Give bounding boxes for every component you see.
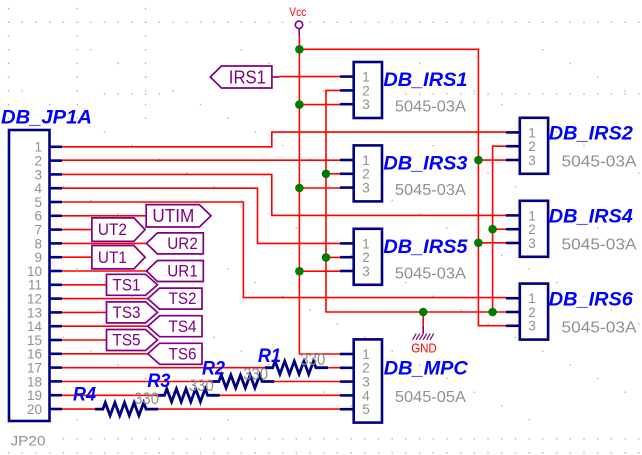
svg-text:330: 330 <box>134 389 159 408</box>
svg-text:TS2: TS2 <box>169 290 197 308</box>
net label UR1 <box>147 261 204 282</box>
junction Vcc bus / DB_IRS3 pin3 <box>295 184 304 193</box>
connector DB_IRS6 (5045-03A) body <box>506 284 548 340</box>
svg-text:8: 8 <box>34 236 42 251</box>
wire JP1A pin18 to R2 <box>62 381 211 383</box>
svg-text:2: 2 <box>528 305 536 320</box>
svg-text:20: 20 <box>27 402 42 417</box>
junction right bus / DB_IRS2 pin3 <box>474 156 483 165</box>
resistor R3 330 <box>156 389 219 402</box>
svg-text:3: 3 <box>34 167 42 182</box>
svg-text:16: 16 <box>27 347 42 362</box>
svg-text:DB_JP1A: DB_JP1A <box>1 107 92 128</box>
wire JP1A pin4 to DB_IRS5 pin1 <box>62 188 341 243</box>
wire JP1A pin11 to TS1 port <box>62 284 107 286</box>
svg-text:DB_IRS6: DB_IRS6 <box>549 289 633 310</box>
svg-text:1: 1 <box>362 153 370 168</box>
wire Vcc bus to DB_IRS5 pin3 <box>299 270 340 272</box>
svg-text:11: 11 <box>28 278 42 293</box>
DB_IRS5 pin numbers <box>362 236 370 279</box>
svg-text:2: 2 <box>34 154 42 169</box>
svg-text:14: 14 <box>27 319 43 334</box>
wire GND bus to DB_IRS3 pin2 <box>326 173 341 175</box>
DB_MPC pin numbers <box>362 347 370 417</box>
svg-text:2: 2 <box>528 139 536 154</box>
svg-text:6: 6 <box>34 209 42 224</box>
wire JP1A pin7 to UT2 port <box>62 229 92 231</box>
junction GND column / DB_IRS4 pin2 <box>488 225 497 234</box>
wire JP1A pin12 to TS2 port <box>62 298 148 300</box>
wire JP1A pin2 to DB_IRS3 pin1 <box>62 159 341 161</box>
svg-text:DB_IRS5: DB_IRS5 <box>383 237 467 258</box>
resistor R1 330 <box>265 361 328 374</box>
svg-text:12: 12 <box>27 292 42 307</box>
svg-text:5: 5 <box>34 195 42 210</box>
wire GND bus: DB_IRS1 pin2 down and across to DB_IRS6 pin2 <box>326 90 507 312</box>
net label TS2 <box>148 288 202 309</box>
wire right bus to DB_IRS4 pin3 <box>478 242 506 244</box>
wire JP1A pin19 to R3 <box>62 394 156 396</box>
svg-text:2: 2 <box>528 222 536 237</box>
wire R2 to DB_MPC pin3 <box>274 381 340 383</box>
wire JP1A pin8 to UR2 port <box>62 242 147 244</box>
svg-text:3: 3 <box>362 264 370 279</box>
svg-text:18: 18 <box>27 374 42 389</box>
svg-text:UTIM: UTIM <box>152 206 194 226</box>
resistor R2 330 <box>211 375 274 388</box>
wire GND bus to DB_IRS5 pin2 <box>326 256 341 258</box>
net label TS6 <box>148 343 202 364</box>
DB_IRS6 pin numbers <box>528 291 536 334</box>
wire IRS1 port to DB_IRS1 pin1 <box>279 76 341 78</box>
net label TS5 <box>107 330 158 351</box>
connector DB_MPC (5045-05A) body <box>340 339 382 422</box>
svg-text:DB_IRS2: DB_IRS2 <box>549 124 633 145</box>
svg-text:3: 3 <box>362 375 370 390</box>
wire Vcc branch to right bus feeding DB_IRS2/4/6 pin3 <box>299 49 506 325</box>
svg-text:2: 2 <box>362 167 370 182</box>
DB_IRS3 pin numbers <box>362 153 370 196</box>
svg-text:R4: R4 <box>73 385 96 406</box>
net label UR2 <box>147 233 204 254</box>
net label TS1 <box>107 274 158 295</box>
connector DB_IRS2 (5045-03A) body <box>506 118 548 174</box>
wire R4 to DB_MPC pin5 <box>158 408 340 410</box>
DB_IRS2 pin numbers <box>528 125 536 168</box>
svg-text:1: 1 <box>34 140 42 155</box>
svg-text:15: 15 <box>27 333 42 348</box>
junction GND bus / ground symbol <box>419 308 428 317</box>
svg-text:UT1: UT1 <box>98 249 127 267</box>
svg-text:GND: GND <box>411 341 437 355</box>
JP1A pin numbers 1-20 <box>27 140 43 417</box>
svg-text:330: 330 <box>189 376 214 395</box>
svg-text:4: 4 <box>362 388 370 403</box>
connector DB_IRS3 (5045-03A) body <box>340 145 382 201</box>
svg-text:TS3: TS3 <box>113 304 141 322</box>
DB_IRS1 pin numbers <box>362 70 370 113</box>
svg-text:10: 10 <box>27 264 42 279</box>
ground symbol <box>413 326 434 340</box>
svg-text:2: 2 <box>362 361 370 376</box>
wire JP1A pin13 to TS3 port <box>62 311 107 313</box>
connector DB_IRS1 (5045-03A) body <box>340 62 382 118</box>
svg-text:IRS1: IRS1 <box>229 67 266 88</box>
svg-text:4: 4 <box>34 181 42 196</box>
junction Vcc bus / right-bus branch <box>295 45 304 54</box>
svg-text:3: 3 <box>528 236 536 251</box>
junction GND column / GND bus <box>488 308 497 317</box>
svg-text:3: 3 <box>362 97 370 112</box>
svg-text:13: 13 <box>27 305 42 320</box>
wire JP1A pin15 to TS5 port <box>62 339 107 341</box>
svg-text:TS6: TS6 <box>169 345 197 363</box>
wire JP1A pin20 to R4 <box>62 408 95 410</box>
svg-text:5: 5 <box>362 402 370 417</box>
junction Vcc bus / DB_IRS5 pin3 <box>295 267 304 276</box>
junction right bus / DB_IRS4 pin3 <box>474 239 483 248</box>
svg-text:3: 3 <box>528 153 536 168</box>
net label UTIM <box>146 205 211 227</box>
wire GND column to DB_IRS4 pin2 <box>493 228 507 230</box>
wire JP1A pin3 to DB_IRS4 pin1 <box>62 174 507 215</box>
svg-text:5045-03A: 5045-03A <box>395 99 467 116</box>
svg-text:DB_MPC: DB_MPC <box>384 359 468 380</box>
svg-text:5045-03A: 5045-03A <box>562 319 638 336</box>
svg-text:UR2: UR2 <box>167 235 198 253</box>
svg-text:UR1: UR1 <box>167 263 198 281</box>
wire right bus to DB_IRS2 pin3 <box>478 159 506 161</box>
svg-text:5045-03A: 5045-03A <box>562 237 638 254</box>
wire Vcc bus to DB_IRS3 pin3 <box>299 187 340 189</box>
svg-text:DB_IRS1: DB_IRS1 <box>383 70 467 91</box>
connector DB_IRS5 (5045-03A) body <box>340 229 382 285</box>
svg-text:5045-05A: 5045-05A <box>395 389 467 406</box>
net label UT2 <box>92 218 145 241</box>
junction GND bus / DB_IRS3 pin2 <box>322 170 331 179</box>
wire JP1A pin14 to TS4 port <box>62 325 148 327</box>
wire R1 to DB_MPC pin2 <box>328 367 340 369</box>
svg-text:1: 1 <box>362 236 370 251</box>
svg-text:7: 7 <box>34 223 42 238</box>
svg-text:2: 2 <box>362 83 370 98</box>
svg-text:1: 1 <box>362 347 370 362</box>
svg-text:TS4: TS4 <box>169 318 197 336</box>
net label IRS1 <box>210 66 279 88</box>
junction Vcc bus / DB_IRS1 pin3 <box>295 100 304 109</box>
junction GND bus / DB_IRS5 pin2 <box>322 253 331 262</box>
svg-text:UT2: UT2 <box>98 221 127 239</box>
connector DB_IRS4 (5045-03A) body <box>506 201 548 257</box>
svg-text:TS5: TS5 <box>113 332 141 350</box>
wire Vcc bus to DB_IRS1 pin3 <box>299 104 340 106</box>
wire JP1A pin5 to DB_IRS6 pin1 <box>62 202 507 298</box>
wire Vcc bus down to DB_MPC pin1 <box>299 36 340 354</box>
svg-text:DB_IRS4: DB_IRS4 <box>549 207 633 228</box>
wire JP1A pin9 to UT1 port <box>62 256 92 258</box>
net label UT1 <box>92 246 145 269</box>
net label TS3 <box>107 302 158 323</box>
svg-text:1: 1 <box>528 291 536 306</box>
svg-text:17: 17 <box>27 361 42 376</box>
DB_IRS4 pin numbers <box>528 208 536 251</box>
svg-text:1: 1 <box>528 125 536 140</box>
svg-text:330: 330 <box>243 365 268 384</box>
wire JP1A pin6 to UTIM port <box>62 215 146 217</box>
wire JP1A pin17 to R1 <box>62 367 265 369</box>
svg-text:330: 330 <box>300 350 325 369</box>
wire R3 to DB_MPC pin4 <box>220 394 341 396</box>
svg-text:DB_IRS3: DB_IRS3 <box>383 153 467 174</box>
svg-text:5045-03A: 5045-03A <box>395 182 467 199</box>
connector JP1A 20-pin body <box>9 130 62 421</box>
svg-text:3: 3 <box>362 181 370 196</box>
wire JP1A pin16 to TS6 port <box>62 353 148 355</box>
power symbol Vcc <box>295 21 302 36</box>
net label TS4 <box>148 316 202 337</box>
wire JP1A pin1 to DB_IRS2 pin1 <box>62 132 507 147</box>
svg-text:JP20: JP20 <box>11 434 46 449</box>
svg-text:9: 9 <box>34 250 42 265</box>
svg-text:1: 1 <box>528 208 536 223</box>
wire DB_IRS2 pin2 down GND column to DB_IRS6 pin2 row <box>493 146 507 312</box>
svg-text:19: 19 <box>27 388 42 403</box>
wire JP1A pin10 to UR1 port <box>62 270 147 272</box>
svg-text:2: 2 <box>362 250 370 265</box>
svg-text:5045-03A: 5045-03A <box>562 154 638 171</box>
resistor R4 330 <box>95 403 158 416</box>
svg-text:Vcc: Vcc <box>289 7 306 19</box>
svg-text:3: 3 <box>528 319 536 334</box>
svg-text:5045-03A: 5045-03A <box>395 265 467 282</box>
svg-text:1: 1 <box>362 70 370 85</box>
svg-text:TS1: TS1 <box>113 276 141 294</box>
wire GND bus to ground symbol <box>422 312 424 326</box>
